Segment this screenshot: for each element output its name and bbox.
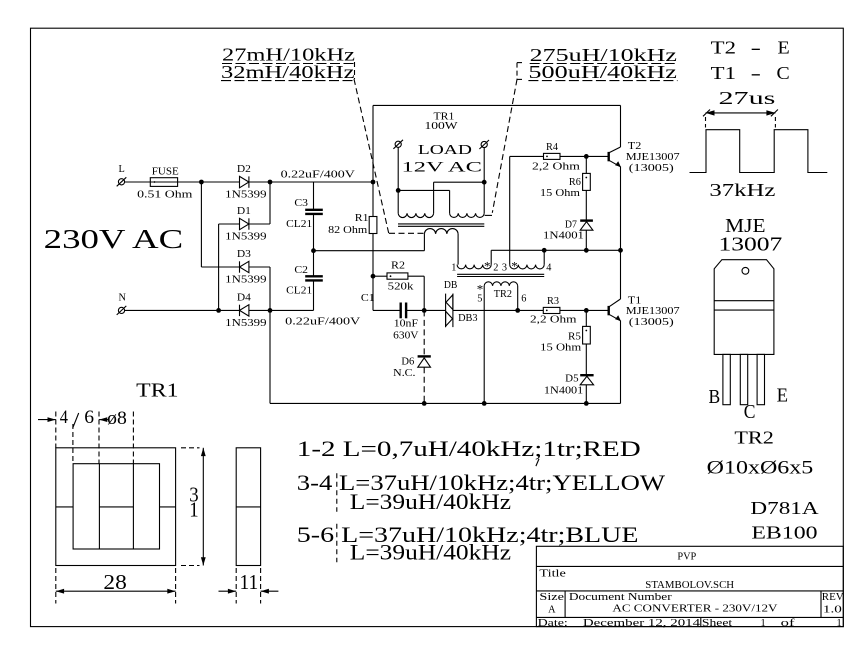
label C3 [294,198,308,209]
pin label 2 [493,262,498,273]
label DB3 [458,313,478,324]
title label Size [539,592,564,603]
wire junction to box left [270,181,373,183]
svg-text:D781A: D781A [750,498,819,518]
wire left terminal down [397,148,399,214]
label 15 Ohm of R6 [540,188,580,199]
core joint line [56,506,176,508]
junction dot D7 emitter rail [584,248,589,253]
label 0.22uF/400V of C2 [285,316,361,327]
top rail wire [373,104,621,106]
label 1N5399 of D2 [225,190,266,201]
winding spec line 3-4b [350,490,512,514]
terminal L [117,177,127,186]
label R4 [546,142,558,153]
svg-text:11: 11 [240,570,259,594]
polarity mark winding 2 [484,259,491,274]
winding spec line 1-2 [297,437,641,461]
svg-text:CL21: CL21 [286,219,312,230]
resistor R6 15 Ohm [583,156,591,219]
wire mid vertical to T1 collector [620,250,622,299]
junction dot D5 rail [584,401,589,406]
core front view outer [56,448,176,566]
svg-text:27us: 27us [719,88,776,108]
junction dot N/D1 branch [216,308,221,313]
svg-text:R5: R5 [568,331,581,342]
wire N to D4 [125,309,240,311]
wire jog to winding B left [398,190,449,213]
svg-text:REV: REV [822,592,844,603]
label 520k [388,282,415,293]
junction dot T2 emitter [618,248,623,253]
dim label 4 [60,408,68,428]
label L [119,164,125,175]
core bobbin divider left [98,464,100,549]
package mounting hole [742,267,749,274]
dim arrow into 6 [99,417,108,422]
winding spec line 3-4 [297,471,666,495]
terminal TR1 secondary right [479,140,489,149]
pin mark R6 [585,177,587,179]
note 37kHz [709,180,775,200]
title label Document Number [569,592,673,603]
terminal TR1 secondary left [393,140,403,149]
label D2 [237,164,251,175]
svg-text:1: 1 [761,618,766,629]
svg-text:0.51 Ohm: 0.51 Ohm [137,190,192,201]
capacitor C3 CL21 [305,182,323,251]
svg-text:E: E [778,37,790,57]
junction dot D2/D1 cathodes [268,180,273,185]
polarity mark winding 3 [511,259,518,274]
dim label 1 [189,498,198,522]
title text 1.0 [823,604,842,615]
svg-text:MJE13007: MJE13007 [626,306,680,317]
svg-text:10nF: 10nF [394,319,418,330]
dim label 28 [103,570,126,594]
svg-text:AC CONVERTER - 230V/12V: AC CONVERTER - 230V/12V [612,604,778,615]
pin label 1 [451,262,456,273]
leader from 275uH label to TR1 secondary [485,79,517,215]
label T1 [628,295,642,306]
svg-text:3: 3 [502,262,507,273]
pin label 6 [521,294,526,305]
wire primary left riser [423,234,425,251]
svg-text:D2: D2 [237,164,251,175]
label R3 [547,296,559,307]
capacitor C2 CL21 [305,251,323,311]
svg-text:6: 6 [521,294,526,305]
svg-text:L=39uH/40kHz: L=39uH/40kHz [350,541,512,565]
junction dot pin4 [542,248,547,253]
resistor R3 2,2 Ohm [543,307,586,313]
resistor R5 15 Ohm [583,310,591,374]
svg-text:D1: D1 [237,206,251,217]
label D6 [401,356,414,367]
junction dot R3/R5 [584,308,589,313]
label TR1 core drawing [136,379,178,401]
svg-text:*: * [511,259,518,274]
svg-text:R1: R1 [355,213,369,224]
label B [709,386,721,408]
diode D5 1N4001 [580,375,593,403]
wire base T1 [586,309,608,311]
label TR2 [494,289,512,300]
wire R4 riser to TR2 pin3 [509,156,511,264]
svg-text:D4: D4 [237,293,251,304]
svg-text:R4: R4 [546,142,558,153]
junction dot C1/D6 [422,308,427,313]
pin mark fuse [154,181,156,183]
svg-text:4: 4 [60,408,68,428]
svg-text:0.22uF/400V: 0.22uF/400V [285,316,361,327]
svg-text:Date:: Date: [538,618,568,629]
title label Sheet [702,618,732,629]
diode D7 1N4001 [580,221,593,251]
label 1N5399 of D4 [225,318,266,329]
polarity mark winding 5 [477,282,484,297]
svg-text:DB3: DB3 [458,313,478,324]
note 27us [719,88,776,108]
svg-text:TR2: TR2 [734,428,773,448]
svg-text:15 Ohm: 15 Ohm [540,188,580,199]
note EB100 [751,522,817,542]
package tab lines [714,301,774,310]
svg-text:L=39uH/40kHz: L=39uH/40kHz [350,490,512,514]
svg-text:R2: R2 [391,261,405,272]
svg-text:T1: T1 [628,295,642,306]
svg-text:1.0: 1.0 [823,604,842,615]
title label Title [539,569,566,580]
svg-text:2,2 Ohm: 2,2 Ohm [530,314,577,325]
dim 11 arrows [219,568,279,604]
text 230V AC [44,224,184,255]
svg-text:-: - [751,37,762,57]
label CL21 of C2 [286,285,312,296]
wire diac to pin6/R3 [453,309,543,311]
note MJE [725,215,765,237]
svg-text:32mH/40kHz: 32mH/40kHz [221,62,355,82]
package leg B [723,354,730,404]
winding TR2 3-4 [510,265,544,269]
svg-text:1N4001: 1N4001 [544,385,583,396]
title text December 12, 2014 [583,618,700,629]
label 15 Ohm of R5 [540,342,581,353]
svg-text:28: 28 [103,570,126,594]
label E [777,384,788,406]
junction dot secondary left [396,188,401,193]
label N.C. [393,368,415,379]
pin mark R4 [546,156,548,158]
label N [119,293,127,304]
wire TR2 pin5 down to bottom rail [483,286,485,404]
capacitor C1 10nF 630V [401,303,446,319]
title block column lines [565,591,821,627]
package leg C [740,354,747,404]
title text AC CONVERTER - 230V/12V [612,604,778,615]
junction dot cap midpoint [311,248,316,253]
svg-text:MJE13007: MJE13007 [626,152,680,163]
note D781A [750,498,819,518]
svg-text:T1: T1 [711,63,736,83]
junction dot secondary right [482,180,487,185]
svg-text:230V AC: 230V AC [44,224,184,255]
label 1N4001 of D5 [544,385,583,396]
label 1N5399 of D1 [225,232,266,243]
diode D4 1N5399 [240,305,249,316]
svg-text:DB: DB [444,280,458,291]
text LOAD [418,142,473,157]
package leg E [757,354,764,404]
svg-text:D3: D3 [237,249,251,260]
wire right terminal down [483,148,485,214]
svg-text:CL21: CL21 [286,285,312,296]
wire vertical D1 anode to N row [218,224,220,310]
core side view [236,448,260,566]
svg-text:-: - [751,63,762,83]
winding TR1 primary [424,229,458,234]
svg-text:Document Number: Document Number [569,592,673,603]
label CL21 of C3 [286,219,312,230]
winding spec line 5-6 [297,523,639,547]
dim extension dashes top [56,412,134,464]
svg-text:0.22uF/400V: 0.22uF/400V [281,169,356,180]
diode D1 1N5399 [240,218,249,229]
wire winding A right up and over [434,182,485,213]
resistor R1 82 Ohm [369,217,377,234]
svg-text:D6: D6 [401,356,414,367]
winding spec line 5-6b [350,541,512,565]
label T2 [628,141,642,152]
svg-text:STAMBOLOV.SCH: STAMBOLOV.SCH [645,580,734,591]
transistor T2 MJE13007 [609,147,621,167]
dim tick slash [73,413,79,428]
note pot core size [707,457,814,478]
svg-text:D7: D7 [565,219,577,230]
dim label ø8 [107,409,127,429]
junction dot pin5 rail [482,401,487,406]
wire TR2 pin2 riser [490,250,492,264]
wire D1 left lead [219,223,240,225]
text 12V AC [402,158,482,175]
transistor T1 MJE13007 [609,299,621,321]
dim label 11 [240,570,259,594]
title block row lines [536,566,843,617]
label 82 Ohm [328,225,367,236]
label D4 [237,293,251,304]
wire base T2 [586,155,608,157]
svg-text:15 Ohm: 15 Ohm [540,342,581,353]
svg-text:2,2 Ohm: 2,2 Ohm [532,162,580,173]
svg-text:100W: 100W [425,121,458,132]
note T1 - C [711,63,790,83]
winding TR1 secondary A [398,213,433,217]
wire L to fuse [125,181,151,183]
resistor R4 2,2 Ohm [510,153,587,159]
title text STAMBOLOV.SCH [645,580,734,591]
label R6 [569,177,581,188]
title label REV [822,592,844,603]
svg-text:(13005): (13005) [629,163,674,174]
svg-text:6: 6 [84,408,94,428]
svg-text:1-2 L=0,7uH/40kHz;1tr;RED: 1-2 L=0,7uH/40kHz;1tr;RED [297,437,641,461]
title block outline [536,546,843,626]
wire C2 bottom stub [270,309,314,311]
pin label 3 [502,262,507,273]
waveform square wave [690,130,828,173]
svg-text:EB100: EB100 [751,522,817,542]
junction dot D6 rail [422,401,427,406]
fuse FUSE 0.51 Ohm [150,178,177,187]
winding TR2 1-2 [457,265,491,269]
wire box left edge upper [372,105,374,216]
label C2 [294,265,308,276]
svg-text:A: A [548,604,556,615]
label 10nF [394,319,418,330]
label (13005) of T1 [629,317,674,328]
svg-text:T2: T2 [711,37,736,57]
junction dot box left top wire [371,180,376,185]
label D5 [565,373,578,384]
wire box left edge lower [373,234,400,311]
svg-text:1N5399: 1N5399 [225,275,266,286]
label DB [444,280,458,291]
svg-text:(13005): (13005) [629,317,674,328]
pin mark R3 [546,310,548,312]
resistor R2 520k [373,273,424,311]
svg-text:630V: 630V [393,331,419,342]
svg-text:C1: C1 [361,293,375,304]
label 100W [425,121,458,132]
pin label 4 [546,262,551,273]
transformer TR1 label [434,112,455,123]
svg-text:Size: Size [539,592,564,603]
junction dot D4/C2/rail [268,308,273,313]
title label Date: [538,618,568,629]
label D1 [237,206,251,217]
svg-text:C3: C3 [294,198,308,209]
junction dot fuse/D3 branch [199,180,204,185]
wire bridge minus down to bottom rail [269,310,271,403]
label FUSE [152,167,179,178]
junction dot R4/R6 [584,154,589,159]
core TR2 [457,274,544,276]
svg-text:N: N [119,293,127,304]
label D3 [237,249,251,260]
svg-text:LOAD: LOAD [418,142,473,157]
core TR1 [398,224,484,226]
winding TR2 5-6 [484,282,517,286]
label 2,2 Ohm of R4 [532,162,580,173]
dim label 3 [189,483,198,507]
note 13007 [719,233,783,255]
bottom rail wire [270,402,621,404]
note T2 - E [711,37,790,57]
svg-text:R3: R3 [547,296,559,307]
wire fuse to D2 [178,181,240,183]
svg-text:*: * [484,259,491,274]
svg-text:Ø10xØ6x5: Ø10xØ6x5 [707,457,814,478]
svg-text:37kHz: 37kHz [709,180,775,200]
wire TR2 pin4 riser [543,250,545,264]
svg-text:L: L [119,164,125,175]
svg-text:5: 5 [477,294,482,305]
svg-text:4: 4 [546,262,551,273]
svg-text:82 Ohm: 82 Ohm [328,225,367,236]
wire D4 anode to junction [249,309,270,311]
svg-text:N.C.: N.C. [393,368,415,379]
svg-text:1: 1 [189,498,198,522]
pin mark R5 [585,330,587,332]
label 2,2 Ohm of R3 [530,314,577,325]
dimension arrow 27us [703,110,778,128]
svg-text:ø8: ø8 [107,409,127,429]
diac DB DB3 [446,294,453,328]
svg-text:C: C [744,401,756,423]
winding TR1 secondary B [450,213,485,217]
dim 31 arrow [181,448,206,566]
title text PVP [677,552,696,563]
label 1N4001 of D7 [543,231,584,242]
diode D3 1N5399 [201,261,249,272]
package TO-220 body [714,260,774,355]
wire D2 to junction [249,181,270,183]
leader from 27mH label to TR1 primary [354,79,424,235]
wire primary right riser to TR2 pin1 [457,234,459,265]
wire D1 cathode up to D2 junction [249,182,270,224]
core front view window [73,464,159,549]
svg-text:13007: 13007 [719,233,783,255]
svg-text:December 12, 2014: December 12, 2014 [583,618,700,629]
label R5 [568,331,581,342]
title text sheet count 1 [837,618,842,629]
pin mark R2 [390,275,392,277]
wire D3 anode to right vertical [249,267,270,310]
svg-text:1: 1 [451,262,456,273]
svg-text:PVP: PVP [677,552,696,563]
wire cap midpoint to TR1 primary [314,250,425,252]
svg-text:T2: T2 [628,141,642,152]
diode D2 1N5399 [240,176,249,187]
label 630V [393,331,419,342]
terminal N [117,306,127,315]
svg-text:Sheet: Sheet [702,618,732,629]
svg-text:1N5399: 1N5399 [225,190,266,201]
svg-text:520k: 520k [388,282,415,293]
junction dot R2 branch [371,274,376,279]
label C1 [361,293,375,304]
dim arrow into 4 [38,417,56,422]
dashed mark after 5-6 [336,524,338,563]
svg-text:D5: D5 [565,373,578,384]
svg-text:TR2: TR2 [494,289,512,300]
label 275uH/500uH inductance note [517,45,678,82]
svg-text:Title: Title [539,569,566,580]
wire vertical to D3 row [200,182,202,267]
label 27mH/32mH inductance note [221,45,356,82]
svg-text:TR1: TR1 [136,379,178,401]
svg-text:FUSE: FUSE [152,167,179,178]
label 1N5399 of D3 [225,275,266,286]
svg-text:1N5399: 1N5399 [225,318,266,329]
title text A [548,604,556,615]
dim label 6 [84,408,94,428]
core bobbin divider right [132,464,134,549]
label R2 [391,261,405,272]
svg-text:1: 1 [837,618,842,629]
svg-text:of: of [781,618,796,629]
diode D6 N.C. dashed branch [418,310,431,403]
